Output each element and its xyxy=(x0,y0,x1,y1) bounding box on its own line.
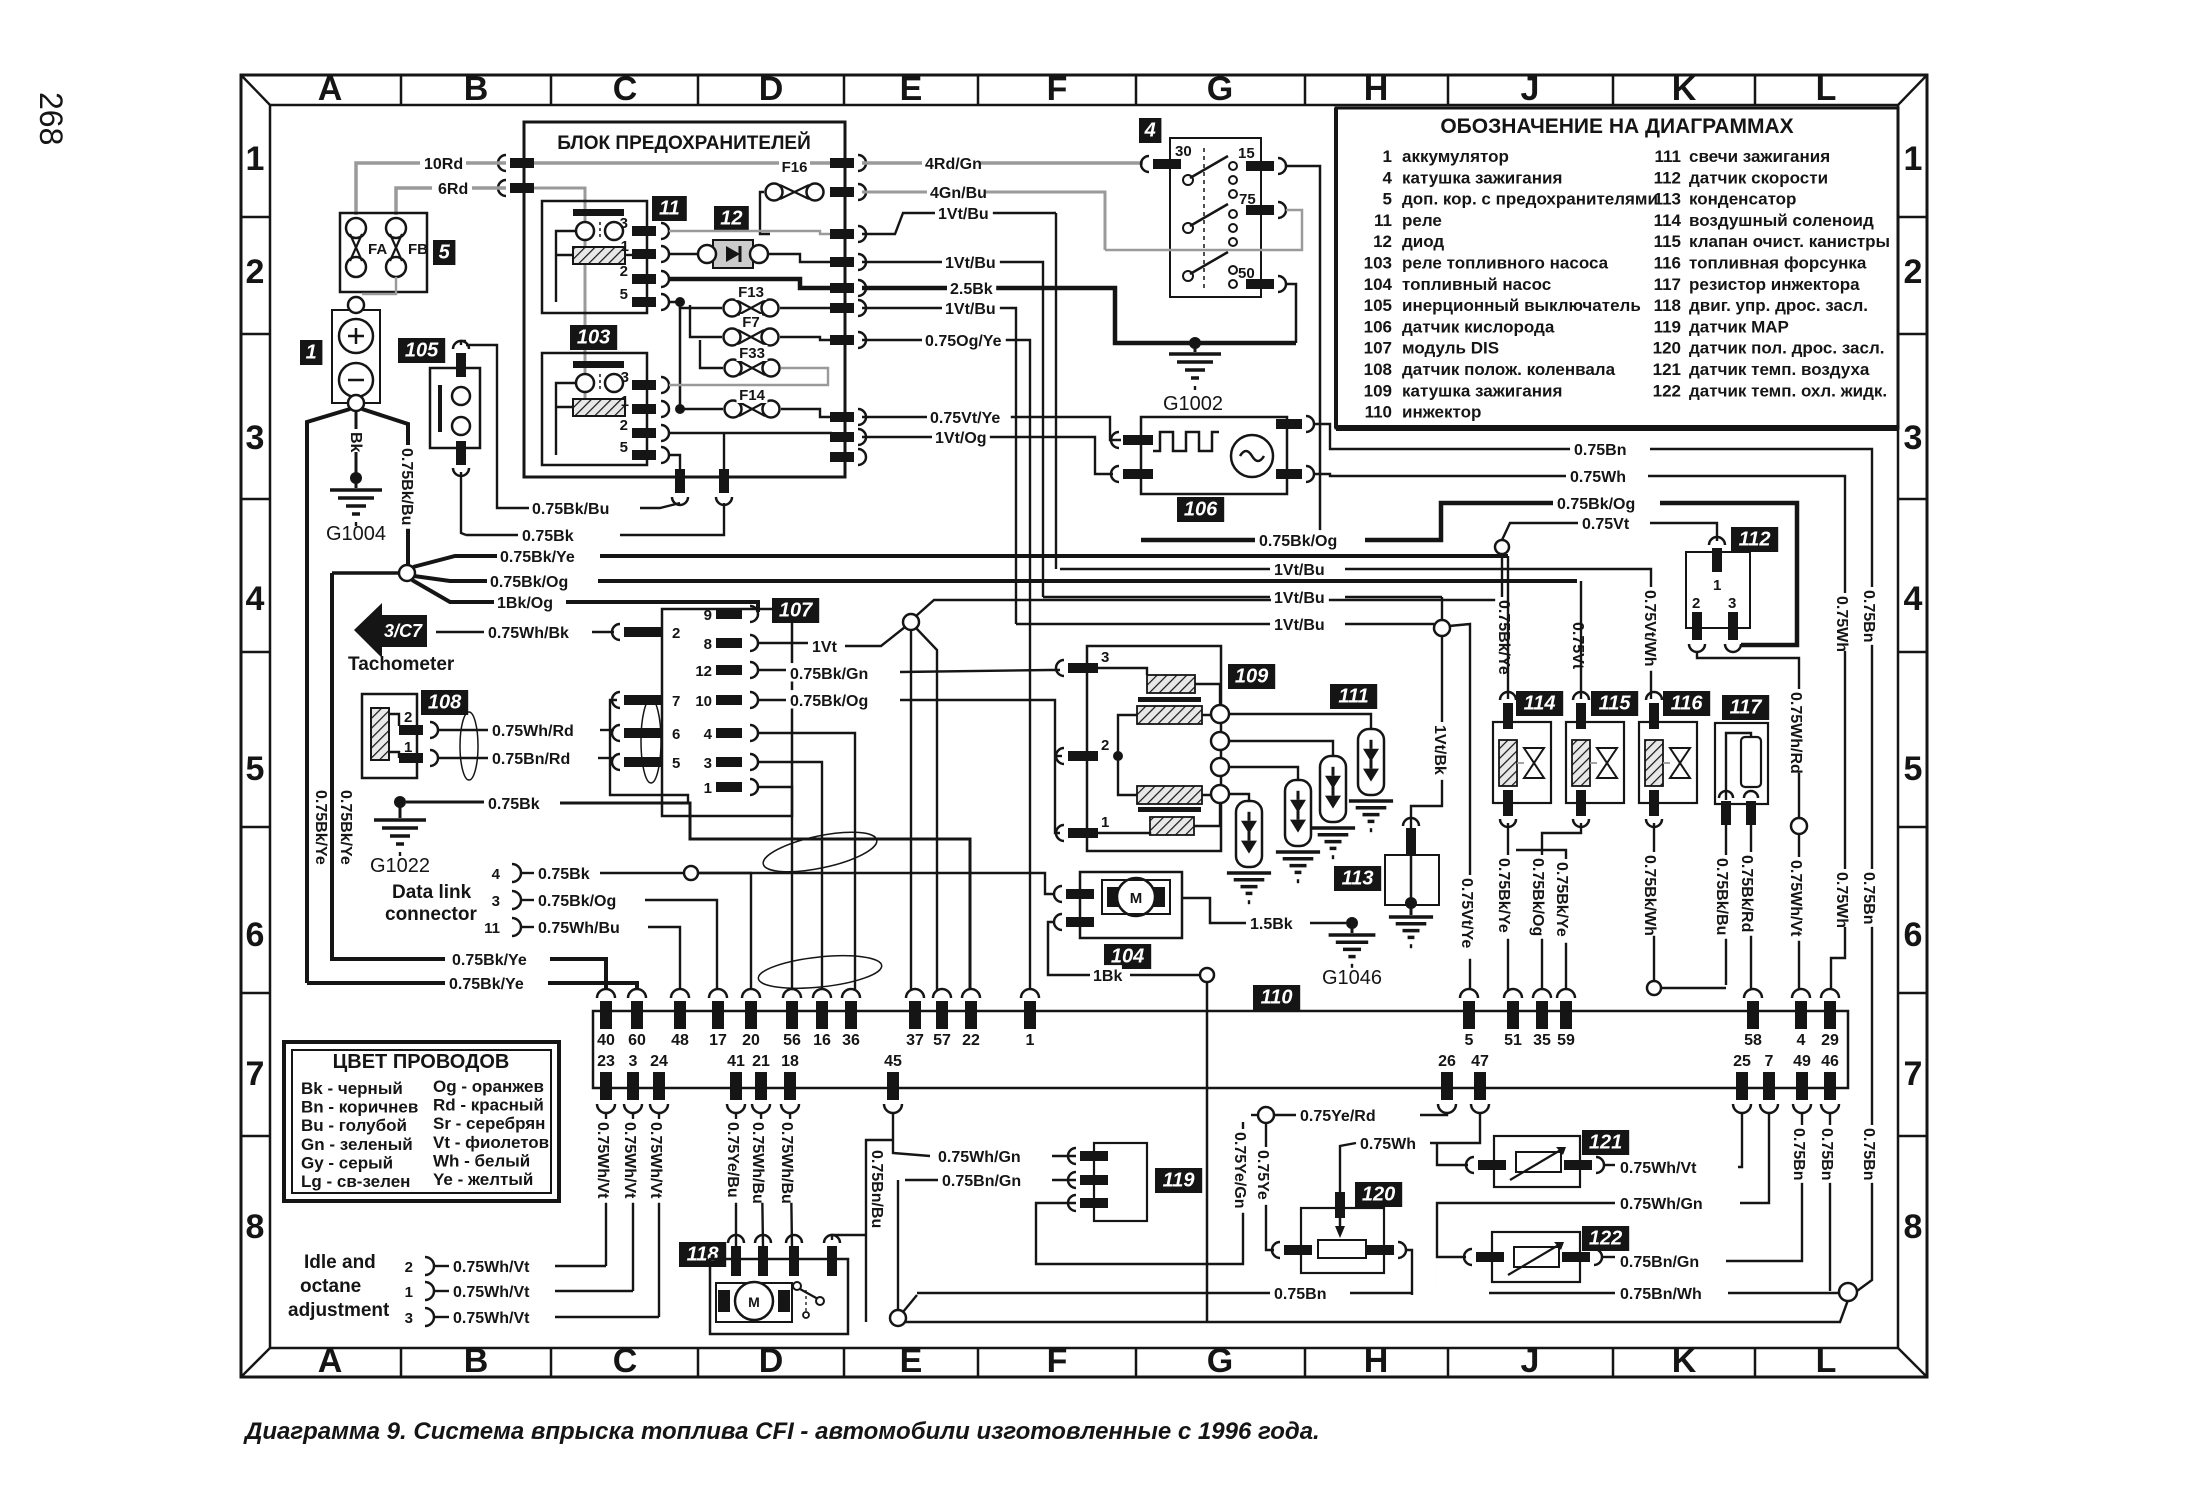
svg-text:120: 120 xyxy=(1653,339,1681,358)
svg-text:1: 1 xyxy=(405,1284,413,1301)
label 4Rd/Gn xyxy=(922,153,980,171)
svg-text:F14: F14 xyxy=(739,387,766,404)
wire 4Rd/Gn gray xyxy=(862,161,1143,165)
wire diode to fuse block edge xyxy=(768,254,832,262)
relay 103 box xyxy=(542,353,647,465)
svg-text:датчик темп. воздуха: датчик темп. воздуха xyxy=(1689,360,1870,379)
106 pin left top xyxy=(1111,432,1119,448)
svg-text:26: 26 xyxy=(1438,1053,1456,1070)
label 1Vt/Bu line b xyxy=(1271,587,1329,605)
svg-text:5: 5 xyxy=(1465,1032,1474,1049)
crank sensor 108 box xyxy=(362,694,417,778)
spark plug 4 xyxy=(1358,729,1384,795)
switch pin 15 xyxy=(1246,161,1274,171)
canister valve 115 top pin xyxy=(1573,692,1589,700)
ground spark plug 3 xyxy=(1311,826,1355,830)
fuse F33 xyxy=(725,360,742,377)
svg-text:6: 6 xyxy=(672,726,680,743)
ground spark plug 2 xyxy=(1276,850,1320,854)
fuel injector 116 coil xyxy=(1645,740,1663,786)
wire node down 0.75Ye xyxy=(1266,1123,1274,1250)
wire 4Gn/Bu gray xyxy=(862,192,1105,250)
wire F33 right return to relay 103 pin3 xyxy=(669,368,828,385)
fuel pump 104 motor xyxy=(1107,887,1119,907)
ground symbol G1004 xyxy=(330,488,382,492)
air temp 121 label xyxy=(1582,1130,1629,1155)
109 core bar bottom xyxy=(1138,807,1201,812)
svg-text:Wh - белый: Wh - белый xyxy=(433,1151,530,1170)
wire relay11 pin3 to edge xyxy=(669,231,832,234)
bundle ellipse left of 107 xyxy=(641,699,661,783)
wire 0.75Bn/Gn 119 xyxy=(905,1179,938,1181)
svg-text:0.75Wh/Bu: 0.75Wh/Bu xyxy=(778,1122,795,1204)
label 0.75Bk/Wh below 116 xyxy=(1641,852,1659,936)
svg-text:112: 112 xyxy=(1739,528,1771,550)
wire branch to ECU pin59 xyxy=(1516,850,1566,990)
svg-text:114: 114 xyxy=(1524,692,1556,714)
svg-text:0.75Bk: 0.75Bk xyxy=(488,796,540,813)
svg-text:29: 29 xyxy=(1821,1032,1839,1049)
label 0.75Bn bottom xyxy=(1271,1283,1329,1301)
svg-text:M: M xyxy=(748,1294,760,1310)
bottom ruler letters A-L xyxy=(400,1348,403,1377)
svg-text:резистор инжектора: резистор инжектора xyxy=(1689,275,1860,294)
label 0.75Wh/Vt v2 xyxy=(621,1119,639,1203)
diode 12 label xyxy=(714,206,749,231)
ECU pin 56 upper xyxy=(783,989,801,998)
svg-text:0.75Vt/Ye: 0.75Vt/Ye xyxy=(930,410,1000,427)
svg-text:0.75Bk/Ye: 0.75Bk/Ye xyxy=(452,952,527,969)
label 0.75Bk/Bu vertical xyxy=(398,445,416,529)
svg-text:17: 17 xyxy=(709,1032,727,1049)
label 0.75Og/Ye xyxy=(922,330,1006,348)
capacitor 113 box xyxy=(1385,855,1439,905)
svg-text:датчик полож. коленвала: датчик полож. коленвала xyxy=(1402,360,1616,379)
ground symbol G1046 xyxy=(1351,923,1354,933)
fuse block bottom pin 1 xyxy=(675,469,685,493)
label 0.75Wh/Vt idle3 xyxy=(450,1307,534,1325)
wire 0.75Bn bottom xyxy=(917,1292,1270,1294)
svg-text:2: 2 xyxy=(1904,253,1923,291)
wire relay11 pin1 to diode xyxy=(669,253,698,255)
svg-text:Ye - желтый: Ye - желтый xyxy=(433,1170,533,1189)
wire 1Vt from 107 pin8 xyxy=(758,642,808,644)
svg-text:1: 1 xyxy=(1904,140,1923,178)
ground dot G1004 xyxy=(350,472,362,484)
wire 0.75Bk/Gn from 107 pin12 xyxy=(758,669,786,671)
node 0.75Wh/Rd xyxy=(1791,818,1807,834)
svg-text:Tachometer: Tachometer xyxy=(348,654,455,675)
svg-text:113: 113 xyxy=(1654,190,1681,209)
wire to spark plug 3 xyxy=(1229,741,1333,756)
label 0.75Vt/Wh above 116 xyxy=(1641,587,1659,671)
svg-text:Bu - голубой: Bu - голубой xyxy=(301,1116,407,1135)
svg-text:0.75Vt: 0.75Vt xyxy=(1582,516,1630,533)
svg-text:L: L xyxy=(1816,70,1837,108)
label 1Vt/Bu c xyxy=(942,298,1000,316)
svg-text:0.75Wh: 0.75Wh xyxy=(1833,596,1850,652)
relay 11 box xyxy=(542,201,647,313)
wire to spark plug 4 xyxy=(1229,714,1371,729)
wire 107 pin4 to ECU pin36 xyxy=(758,733,855,990)
109 node d xyxy=(1211,785,1229,803)
svg-text:116: 116 xyxy=(1671,692,1704,714)
svg-text:двиг. упр. дрос. засл.: двиг. упр. дрос. засл. xyxy=(1689,296,1868,315)
fuel injector 116 box xyxy=(1639,722,1697,803)
wire 0.75Bk/Ye row6 lower xyxy=(307,981,445,985)
svg-text:10Rd: 10Rd xyxy=(424,156,463,173)
svg-text:adjustment: adjustment xyxy=(288,1300,390,1321)
wire 0.75Og/Ye xyxy=(862,340,1030,990)
label 0.75Wh/Vt v1 xyxy=(594,1119,612,1203)
122 element xyxy=(1514,1247,1559,1267)
ECU pin 1 upper xyxy=(1021,989,1039,998)
wire node left arm xyxy=(332,571,399,575)
121 right pin xyxy=(1564,1160,1592,1170)
svg-text:A: A xyxy=(318,1342,343,1380)
svg-text:1Vt/Bu: 1Vt/Bu xyxy=(1274,590,1325,607)
107 pin 6 outside xyxy=(612,725,620,741)
label 0.75Bk/Ye row6 upper xyxy=(449,949,533,967)
svg-text:113: 113 xyxy=(1342,867,1374,889)
label 0.75Ye/Bu v xyxy=(724,1119,742,1203)
speed sensor 112 label xyxy=(1731,527,1778,552)
ECU pin 20 upper xyxy=(742,989,760,998)
svg-text:111: 111 xyxy=(1338,685,1368,707)
svg-text:0.75Bk/Ye: 0.75Bk/Ye xyxy=(1495,600,1512,675)
fuel pump 104 pin top xyxy=(1054,886,1062,902)
wire 0.75Bk/Og heavy from 106 xyxy=(1141,538,1255,543)
label 0.75Bn vert pin49 xyxy=(1790,1125,1808,1183)
svg-text:115: 115 xyxy=(1599,692,1632,714)
svg-text:40: 40 xyxy=(597,1032,615,1049)
svg-text:0.75Bk/Wh: 0.75Bk/Wh xyxy=(1641,855,1658,936)
label 0.75Vt/Ye fuse xyxy=(927,407,1011,425)
fuse FA xyxy=(346,218,366,238)
svg-text:3: 3 xyxy=(1904,419,1923,457)
svg-text:5: 5 xyxy=(672,755,680,772)
svg-text:0.75Wh: 0.75Wh xyxy=(1360,1136,1416,1153)
label 1Vt/Bu a xyxy=(935,203,993,221)
svg-text:Data link: Data link xyxy=(392,882,472,903)
wire F33 left xyxy=(700,340,723,368)
svg-text:48: 48 xyxy=(671,1032,689,1049)
svg-text:5: 5 xyxy=(246,750,265,788)
svg-text:106: 106 xyxy=(1364,317,1392,336)
svg-text:0.75Bk/Bu: 0.75Bk/Bu xyxy=(532,501,609,518)
ECU pin 59 upper xyxy=(1557,989,1575,998)
wire 1Vt/Bu line b xyxy=(1043,596,1270,598)
crank sensor 108 element xyxy=(371,708,389,760)
ground dot G1002 xyxy=(1189,337,1201,349)
wire 0.75Bn from 106 xyxy=(1314,424,1570,449)
svg-text:122: 122 xyxy=(1653,381,1681,400)
svg-text:1: 1 xyxy=(306,341,317,363)
svg-text:1: 1 xyxy=(1713,577,1721,594)
svg-text:3: 3 xyxy=(246,419,265,457)
spark plugs 111 label xyxy=(1330,684,1377,709)
svg-text:датчик скорости: датчик скорости xyxy=(1689,168,1828,187)
relay 103 core bar xyxy=(573,361,624,368)
109 pin 3 xyxy=(1056,660,1064,676)
svg-text:G1022: G1022 xyxy=(370,855,430,877)
ignition switch 4 box xyxy=(1170,138,1261,297)
svg-text:F33: F33 xyxy=(739,345,765,362)
wire 114 top xyxy=(1507,556,1509,699)
svg-text:1: 1 xyxy=(1101,814,1109,831)
svg-text:0.75Bk/Ye: 0.75Bk/Ye xyxy=(337,790,354,865)
svg-text:118: 118 xyxy=(1654,296,1681,315)
ignition switch 4 label xyxy=(1139,118,1161,143)
wire F7 right xyxy=(780,337,832,340)
svg-text:0.75Bk/Ye: 0.75Bk/Ye xyxy=(1553,862,1570,937)
label 0.75Wh/Bk xyxy=(485,622,569,640)
wire 0.75Wh/Rd xyxy=(438,729,488,731)
109 node c xyxy=(1211,758,1229,776)
wire relay103 pin2 branch down xyxy=(723,433,725,471)
wire 0.75Bk datalink xyxy=(600,872,684,874)
label 1Bk/Og xyxy=(494,592,552,610)
ignition coil 109 label xyxy=(1228,664,1275,689)
battery 1 box xyxy=(332,310,380,403)
wire 1Vt/Og xyxy=(862,437,1113,474)
speed sensor 112 box xyxy=(1686,552,1750,628)
fuse block right pin y234 xyxy=(830,229,854,239)
label 1Vt/Bu b xyxy=(942,252,1000,270)
label 0.75Bn right top xyxy=(1571,439,1629,457)
svg-text:FB: FB xyxy=(408,241,428,258)
svg-text:FA: FA xyxy=(368,241,387,258)
injector resistor 117 box xyxy=(1715,723,1768,804)
svg-text:115: 115 xyxy=(1654,232,1681,251)
svg-text:11: 11 xyxy=(1374,211,1392,230)
relay 11 label xyxy=(652,196,687,221)
top ruler letters A-L xyxy=(400,75,403,105)
wire 115 top xyxy=(1580,581,1582,699)
svg-text:F16: F16 xyxy=(782,159,808,176)
ECU pin 48 upper xyxy=(671,989,689,998)
wire node up right xyxy=(916,548,1502,616)
svg-text:0.75Bn: 0.75Bn xyxy=(1860,590,1877,642)
label 0.75Bn/Bu v xyxy=(868,1147,886,1231)
svg-text:2: 2 xyxy=(1101,737,1109,754)
106 pin left bottom xyxy=(1111,466,1119,482)
fuse block right pin y262 xyxy=(830,257,854,267)
wire 0.75Wh from wiper xyxy=(1340,1143,1356,1192)
svg-text:21: 21 xyxy=(752,1053,770,1070)
svg-text:Sr - серебрян: Sr - серебрян xyxy=(433,1114,545,1133)
label 0.75Ye/Rd xyxy=(1297,1105,1381,1123)
relay 103 label xyxy=(570,325,617,350)
svg-text:0.75Wh/Rd: 0.75Wh/Rd xyxy=(492,723,574,740)
svg-text:2: 2 xyxy=(672,625,680,642)
wire 116 bottom xyxy=(1653,823,1655,982)
label 0.75Bk/Og heavy a xyxy=(1256,530,1340,548)
wire relay103 pin2 to edge xyxy=(669,432,832,434)
relay 11 coil xyxy=(573,247,625,264)
tachometer arrow 3/C7 xyxy=(354,603,427,658)
wire 0.75Bk G1022 xyxy=(406,801,484,804)
svg-text:Bk - черный: Bk - черный xyxy=(301,1079,403,1098)
frame corner diagonal top-right xyxy=(1898,75,1927,105)
svg-text:2: 2 xyxy=(620,417,628,434)
svg-text:0.75Bk/Og: 0.75Bk/Og xyxy=(1529,858,1546,936)
ECU pin 22 upper xyxy=(962,989,980,998)
wire 10Rd from FA fuse xyxy=(356,163,420,215)
injector resistor 117 label xyxy=(1722,695,1769,720)
label 0.75Bk/Ye fan xyxy=(497,546,581,564)
svg-text:47: 47 xyxy=(1471,1053,1489,1070)
svg-text:0.75Bk/Ye: 0.75Bk/Ye xyxy=(500,549,575,566)
fuse block right pin y457 xyxy=(830,452,854,462)
frame corner diagonal top-left xyxy=(241,75,270,105)
120 wiper xyxy=(1335,1192,1345,1218)
svg-text:топливный насос: топливный насос xyxy=(1402,275,1551,294)
svg-text:15: 15 xyxy=(1238,145,1255,162)
svg-text:119: 119 xyxy=(1163,1169,1196,1191)
svg-text:4: 4 xyxy=(492,866,501,883)
118 pin x794 xyxy=(786,1235,802,1243)
fuse F14 xyxy=(725,401,742,418)
label 0.75Bk/Gn xyxy=(787,663,871,681)
label 2.5Bk xyxy=(947,278,996,296)
wire 1Vt/Bu top bend xyxy=(862,213,1056,234)
ECU pin 4 upper xyxy=(1792,989,1810,998)
svg-text:36: 36 xyxy=(842,1032,860,1049)
wire ECU41 down xyxy=(735,1112,737,1246)
109 coil winding 3 xyxy=(1137,786,1202,804)
117 left pin xyxy=(1719,791,1733,798)
svg-text:12: 12 xyxy=(720,207,742,229)
svg-text:117: 117 xyxy=(1654,275,1681,294)
label 0.75Wh 120 xyxy=(1357,1133,1415,1151)
svg-text:0.75Wh/Vt: 0.75Wh/Vt xyxy=(453,1259,530,1276)
label 0.75Wh/Rd vert xyxy=(1787,689,1805,773)
wire 1322 horizontal xyxy=(898,1300,1848,1322)
air solenoid 114 top pin xyxy=(1500,692,1516,700)
109 coil winding 4 xyxy=(1150,817,1194,835)
node 1Bk xyxy=(1200,968,1214,982)
svg-text:0.75Wh/Vt: 0.75Wh/Vt xyxy=(621,1122,638,1199)
node 1Vt/Bu c xyxy=(1434,620,1450,636)
ECU connector 110 box xyxy=(593,1011,1848,1088)
oxygen sensor 106 box xyxy=(1141,417,1287,494)
wire switch 50 to ground net xyxy=(1286,284,1296,343)
wire 0.75Wh branch to 121 xyxy=(1437,1143,1468,1165)
wire idle 1 xyxy=(555,1290,633,1292)
DIS module 107 box xyxy=(662,609,792,816)
switch pin left xyxy=(1141,156,1149,172)
svg-text:0.75Wh/Vt: 0.75Wh/Vt xyxy=(453,1310,530,1327)
svg-text:1Vt/Bu: 1Vt/Bu xyxy=(945,255,996,272)
label 0.75Ye vert xyxy=(1254,1147,1272,1205)
fuse FB xyxy=(386,218,406,238)
ECU pin 58 upper xyxy=(1744,989,1762,998)
svg-text:3: 3 xyxy=(704,755,712,772)
label 0.75Bk/Og datalink xyxy=(535,890,619,908)
svg-text:122: 122 xyxy=(1589,1227,1622,1249)
svg-text:10: 10 xyxy=(695,693,712,710)
svg-text:9: 9 xyxy=(704,607,712,624)
107 pin 7 outside xyxy=(612,692,620,708)
outer frame border xyxy=(241,75,1927,1377)
MAP sensor 119 box xyxy=(1094,1143,1147,1221)
svg-text:2: 2 xyxy=(404,709,412,726)
svg-text:топливная форсунка: топливная форсунка xyxy=(1689,254,1867,273)
junction dot relay103 pin1 xyxy=(675,404,685,414)
svg-text:7: 7 xyxy=(672,693,680,710)
ECU pin 51 upper xyxy=(1504,989,1522,998)
ECU pin 40 upper xyxy=(597,989,615,998)
ECU pin 35 upper xyxy=(1533,989,1551,998)
wire 0.75Bk/Og datalink xyxy=(645,900,717,990)
ECU pin 29 upper xyxy=(1821,989,1839,998)
svg-text:8: 8 xyxy=(246,1208,265,1246)
svg-text:0.75Wh/Bu: 0.75Wh/Bu xyxy=(538,920,620,937)
svg-text:Gn - зеленый: Gn - зеленый xyxy=(301,1135,413,1154)
svg-text:11: 11 xyxy=(484,920,500,937)
svg-text:G1002: G1002 xyxy=(1163,393,1223,415)
wire 0.75Bk from fuse block xyxy=(620,503,724,535)
label 0.75Bn/Rd xyxy=(489,748,573,766)
svg-text:0.75Bn: 0.75Bn xyxy=(1274,1286,1326,1303)
svg-text:1: 1 xyxy=(1026,1032,1035,1049)
label 0.75Wh/Bu datalink xyxy=(535,917,619,935)
svg-text:катушка зажигания: катушка зажигания xyxy=(1402,168,1562,187)
svg-text:E: E xyxy=(900,70,923,108)
fuel injector 116 bottom pin xyxy=(1649,790,1659,816)
svg-text:0.75Wh/Rd: 0.75Wh/Rd xyxy=(1787,692,1804,774)
label 0.75Wh/Gn 119 xyxy=(935,1146,1019,1164)
svg-text:0.75Vt/Wh: 0.75Vt/Wh xyxy=(1641,590,1658,666)
fuse block pin 10Rd xyxy=(498,155,506,171)
106 heater element xyxy=(1153,432,1219,451)
svg-text:0.75Wh/Vt: 0.75Wh/Vt xyxy=(1620,1160,1697,1177)
wire to spark plug 2 xyxy=(1229,767,1298,780)
svg-text:0.75Bk/Og: 0.75Bk/Og xyxy=(490,574,568,591)
label 0.75Bk/Bu xyxy=(529,498,613,516)
svg-text:109: 109 xyxy=(1364,381,1392,400)
svg-text:12: 12 xyxy=(1373,232,1392,251)
ground symbol 113 xyxy=(1410,903,1413,915)
node 0.75Vt xyxy=(1495,540,1509,554)
svg-text:octane: octane xyxy=(300,1276,361,1297)
svg-text:11: 11 xyxy=(659,197,680,219)
svg-text:B: B xyxy=(464,1342,489,1380)
svg-text:0.75Bk/Ye: 0.75Bk/Ye xyxy=(312,790,329,865)
switch contacts middle xyxy=(1183,223,1193,233)
svg-text:0.75Bn/Wh: 0.75Bn/Wh xyxy=(1620,1286,1702,1303)
svg-text:0.75Wh/Gn: 0.75Wh/Gn xyxy=(1620,1196,1703,1213)
121 element xyxy=(1516,1152,1561,1172)
svg-text:51: 51 xyxy=(1504,1032,1522,1049)
svg-text:1Vt/Bu: 1Vt/Bu xyxy=(945,301,996,318)
svg-text:Bn - коричнев: Bn - коричнев xyxy=(301,1098,418,1117)
wire node to 113 xyxy=(1411,636,1442,830)
svg-text:0.75Bk: 0.75Bk xyxy=(522,528,574,545)
svg-text:0.75Wh/Bu: 0.75Wh/Bu xyxy=(749,1122,766,1204)
svg-text:37: 37 xyxy=(906,1032,924,1049)
label 5 xyxy=(433,240,455,265)
label 0.75Wh vert b xyxy=(1833,869,1851,927)
svg-text:B: B xyxy=(464,70,489,108)
label 0.75Bk/Og fan xyxy=(487,571,571,589)
svg-text:K: K xyxy=(1672,1342,1697,1380)
label 0.75Bn/Gn 122 xyxy=(1617,1251,1701,1269)
svg-text:F: F xyxy=(1047,70,1068,108)
svg-text:1Vt/Og: 1Vt/Og xyxy=(935,430,987,447)
label 1.5Bk xyxy=(1247,913,1296,931)
